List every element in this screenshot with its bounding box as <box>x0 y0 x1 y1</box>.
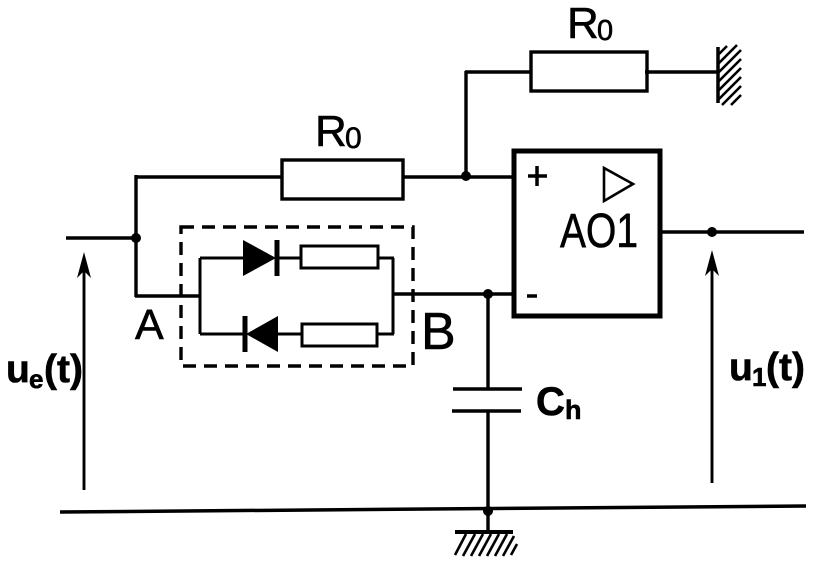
svg-text:(t): (t) <box>44 348 83 391</box>
svg-text:C: C <box>536 380 565 424</box>
svg-text:1: 1 <box>752 362 766 392</box>
svg-text:0: 0 <box>345 122 362 155</box>
svg-text:u: u <box>729 346 753 389</box>
svg-text:A: A <box>135 301 164 349</box>
svg-text:h: h <box>565 395 582 425</box>
svg-text:e: e <box>29 364 43 394</box>
svg-text:(t): (t) <box>766 346 805 389</box>
svg-text:u: u <box>6 348 30 391</box>
svg-text:R: R <box>315 107 347 156</box>
svg-text:AO1: AO1 <box>560 205 638 258</box>
svg-text:0: 0 <box>597 15 613 47</box>
svg-text:B: B <box>421 303 456 361</box>
svg-text:R: R <box>567 0 599 48</box>
